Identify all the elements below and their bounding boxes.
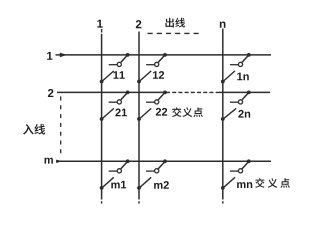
label: crosspoint m2 (154, 181, 169, 189)
label: outgoing column 2 (136, 20, 142, 28)
label: outgoing column 1 (97, 20, 102, 28)
wire from row junction to fixed contact of m1 (121, 162, 127, 169)
label: crosspoint 1n (237, 73, 248, 81)
wire: outgoing line column 2 (138, 32, 140, 204)
contact stub wire of m2 (146, 170, 155, 172)
pivot junction dot on column wire at crosspoint m1 (100, 186, 104, 190)
crosspoint switch 2n (221, 91, 251, 121)
movable switch arm of m1 (101, 177, 113, 188)
fixed contact circle of 22 (155, 100, 159, 104)
label: crosspoint m1 (111, 181, 126, 189)
crosspoint switch 12 (137, 53, 167, 83)
label: outgoing column n (220, 22, 226, 28)
pivot junction dot on column wire at crosspoint 11 (100, 80, 104, 84)
label: crosspoint 12 (153, 71, 164, 79)
dashed continuation between column 2 and column n (148, 32, 202, 34)
wire: incoming line row 2 (57, 91, 270, 93)
arrowhead on incoming line m (56, 160, 62, 163)
movable switch arm of mn (223, 177, 235, 188)
wire from row junction to fixed contact of 11 (121, 55, 127, 62)
contact stub wire of 2n (230, 101, 239, 103)
pivot junction dot on column wire at crosspoint 1n (221, 80, 225, 84)
contact stub wire of 11 (109, 64, 118, 66)
junction dot on row wire at crosspoint mn (247, 159, 251, 163)
pivot junction dot on column wire at crosspoint 2n (221, 117, 225, 121)
junction dot on row wire at crosspoint 11 (126, 53, 130, 57)
junction dot on row wire at crosspoint 22 (163, 91, 167, 95)
crosspoint switch m1 (100, 159, 130, 189)
contact stub wire of 21 (109, 101, 118, 103)
label: crosspoint 11 (113, 71, 124, 79)
movable switch arm of 2n (223, 108, 237, 119)
movable switch arm of 11 (101, 71, 113, 82)
arrowhead on incoming line 1 (60, 53, 67, 58)
fixed contact circle of m2 (155, 169, 159, 173)
junction dot on row wire at crosspoint m1 (126, 159, 130, 163)
pivot junction dot on column wire at crosspoint 12 (137, 80, 141, 84)
fixed contact circle of 21 (117, 100, 121, 104)
junction dot on row wire at crosspoint 21 (126, 91, 130, 95)
contact stub wire of 22 (146, 101, 155, 103)
movable switch arm of 1n (223, 71, 235, 82)
junction dot on row wire at crosspoint 2n (247, 91, 251, 95)
movable switch arm of 22 (139, 108, 151, 119)
dashed continuation between row 2 and row m (60, 97, 62, 159)
wire from row junction to fixed contact of 12 (158, 55, 164, 62)
fixed contact circle of 2n (238, 100, 242, 104)
pivot junction dot on column wire at crosspoint 21 (100, 117, 104, 121)
wire: outgoing line column 1 (101, 29, 103, 204)
label: incoming row 1 (47, 52, 52, 60)
fixed contact circle of mn (238, 169, 242, 173)
label: crosspoint 2n (238, 110, 250, 118)
movable switch arm of 21 (101, 108, 113, 119)
wire: outgoing line column n (222, 29, 224, 204)
crosspoint switch 11 (100, 53, 130, 83)
junction dot on row wire at crosspoint 1n (247, 53, 251, 57)
movable switch arm of m2 (139, 177, 151, 188)
wire from row junction to fixed contact of 2n (242, 93, 248, 100)
crosspoint switch 21 (100, 91, 130, 121)
pivot junction dot on column wire at crosspoint 22 (137, 117, 141, 121)
label: incoming row 2 (48, 89, 54, 97)
contact stub wire of m1 (109, 170, 118, 172)
wire from row junction to fixed contact of 22 (158, 93, 164, 100)
pivot junction dot on column wire at crosspoint mn (221, 186, 225, 190)
pivot junction dot on column wire at crosspoint m2 (137, 186, 141, 190)
label: 出线 (outgoing lines) (165, 18, 185, 28)
crosspoint switch m2 (137, 159, 167, 189)
wire from row junction to fixed contact of mn (242, 162, 248, 169)
label: crosspoint 22 交义点 (crosspoint) (156, 107, 203, 117)
fixed contact circle of m1 (117, 169, 121, 173)
wire from row junction to fixed contact of 1n (242, 55, 248, 62)
label: 入线 (incoming lines) (23, 124, 45, 135)
junction dot on row wire at crosspoint m2 (163, 159, 167, 163)
wire: incoming line row 1 (56, 54, 272, 56)
contact stub wire of 12 (146, 64, 155, 66)
crosspoint switch mn (221, 159, 251, 189)
crosspoint switch 1n (221, 53, 251, 83)
fixed contact circle of 12 (155, 62, 159, 66)
contact stub wire of mn (230, 170, 239, 172)
label: incoming row m (45, 158, 53, 164)
wire from row junction to fixed contact of m2 (158, 162, 164, 169)
label: crosspoint 21 (115, 109, 127, 117)
movable switch arm of 12 (139, 71, 151, 82)
wire from row junction to fixed contact of 21 (121, 93, 127, 100)
label: crosspoint mn 交义点 (crosspoint) (237, 178, 290, 188)
wire: incoming line row m (56, 160, 271, 162)
crosspoint switch 22 (137, 91, 167, 121)
fixed contact circle of 1n (238, 62, 242, 66)
junction dot on row wire at crosspoint 12 (163, 53, 167, 57)
contact stub wire of 1n (230, 64, 239, 66)
fixed contact circle of 11 (117, 62, 121, 66)
